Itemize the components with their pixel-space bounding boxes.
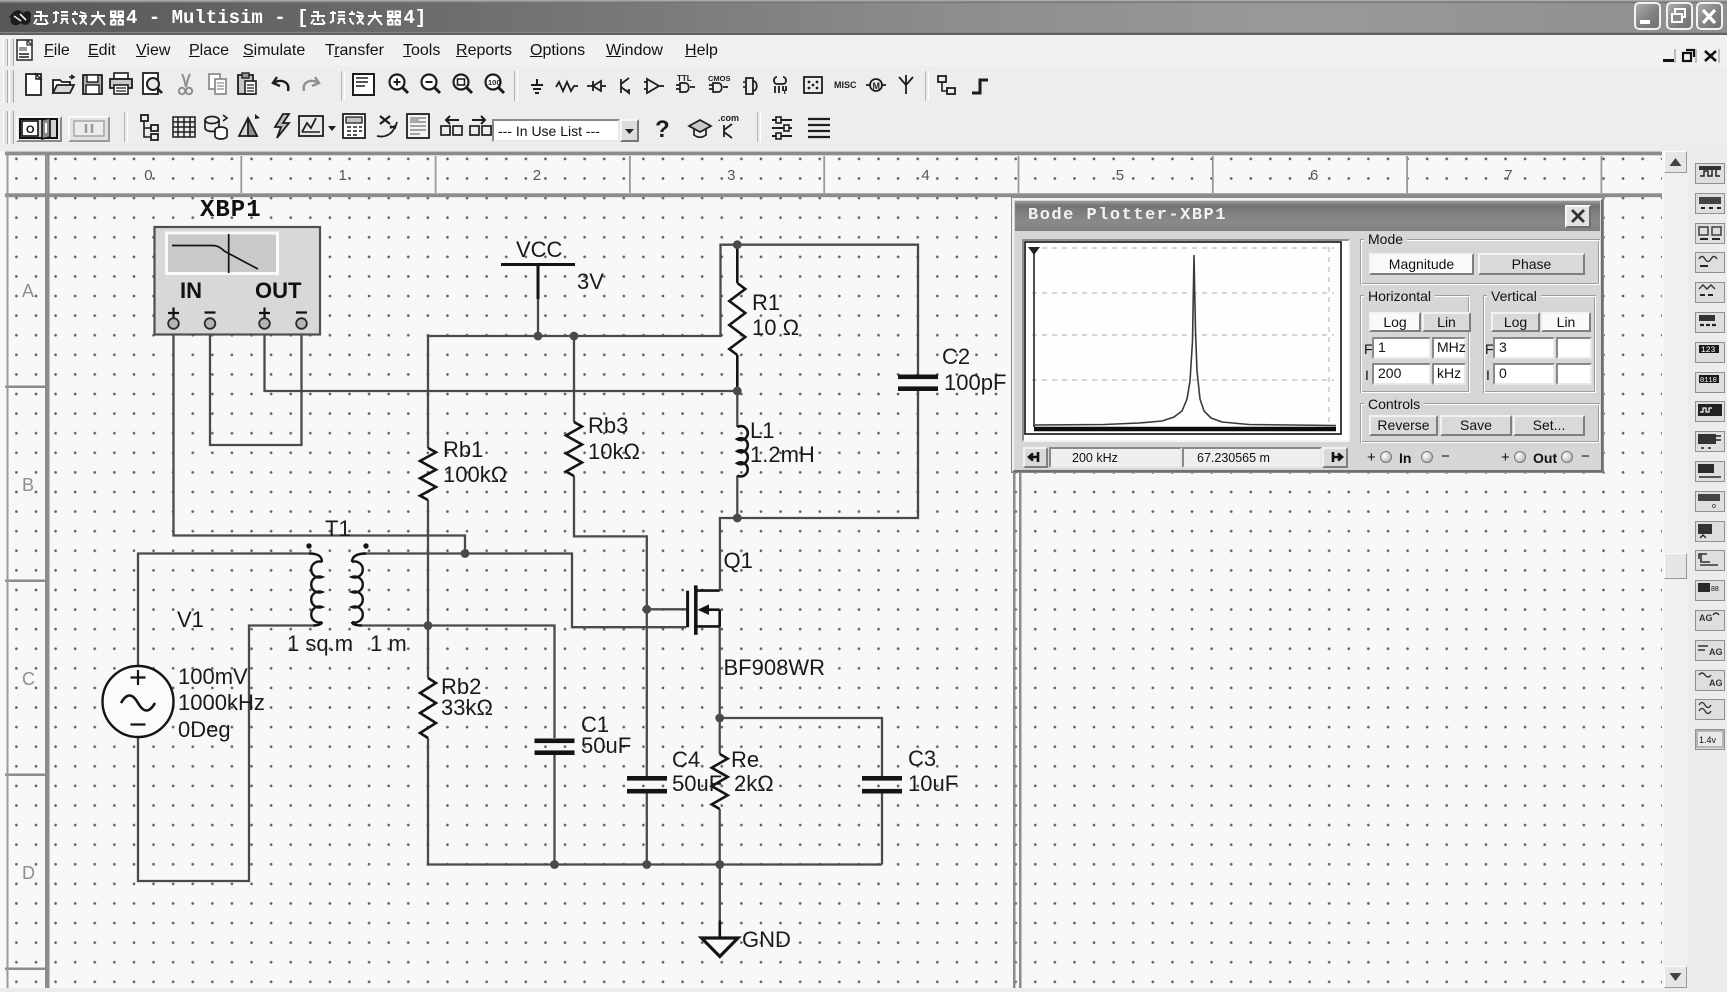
wire IN+ to secondary node bbox=[174, 329, 466, 554]
wire Rb3 bottom to gate G2 node bbox=[574, 476, 647, 609]
svg-text:L1: L1 bbox=[750, 418, 774, 443]
wire IN- to OUT- bbox=[210, 329, 302, 445]
capacitor C1 bbox=[535, 739, 575, 744]
wire C4 bottom to ground rail bbox=[646, 794, 648, 865]
junction node gate G2 bbox=[642, 605, 651, 614]
junction node C1 ground bbox=[550, 860, 559, 869]
svg-text:D: D bbox=[22, 863, 35, 883]
svg-text:2: 2 bbox=[533, 167, 541, 184]
svg-text:10kΩ: 10kΩ bbox=[588, 439, 640, 464]
svg-text:GND: GND bbox=[742, 927, 791, 952]
svg-text:C3: C3 bbox=[908, 746, 936, 771]
instrument XBP1 (bode plotter) bbox=[155, 227, 321, 335]
svg-text:3V: 3V bbox=[577, 269, 604, 294]
inductor L1 bbox=[737, 426, 748, 476]
wire T1 secondary top to gate G1 bbox=[362, 554, 686, 628]
svg-text:1: 1 bbox=[339, 167, 347, 184]
wire C1 bottom to ground rail bbox=[553, 755, 555, 865]
svg-text:OUT: OUT bbox=[255, 278, 302, 303]
junction node C4 ground bbox=[642, 860, 651, 869]
svg-text:AG: AG bbox=[1709, 647, 1723, 657]
svg-text:0: 0 bbox=[144, 167, 152, 184]
svg-text:2kΩ: 2kΩ bbox=[734, 771, 774, 796]
svg-text:Re: Re bbox=[731, 747, 759, 772]
transformer T1 bbox=[306, 543, 368, 625]
wire OUT+ to R1/L1 node bbox=[265, 329, 737, 391]
wire Rb1 top lead bbox=[427, 336, 429, 448]
wire C3 branch bbox=[720, 718, 882, 865]
svg-text:B: B bbox=[22, 475, 34, 495]
junction node drain/tank bbox=[733, 514, 742, 523]
svg-text:1.2mH: 1.2mH bbox=[750, 442, 815, 467]
wire C2 bottom to drain node bbox=[720, 391, 918, 591]
svg-text:3: 3 bbox=[727, 167, 735, 184]
svg-text:AG: AG bbox=[1699, 613, 1713, 623]
svg-text:T1: T1 bbox=[325, 516, 351, 541]
svg-text:0110: 0110 bbox=[1700, 377, 1717, 385]
svg-text:V1: V1 bbox=[177, 607, 204, 632]
svg-text:R1: R1 bbox=[752, 290, 780, 315]
svg-text:1 m: 1 m bbox=[370, 631, 407, 656]
svg-text:0Deg: 0Deg bbox=[178, 717, 231, 742]
svg-text:50uF: 50uF bbox=[581, 733, 631, 758]
svg-text:100pF: 100pF bbox=[944, 370, 1006, 395]
junction node Re/C3 ground bbox=[715, 860, 724, 869]
wire Q1 source to Re and rail to ground bbox=[719, 626, 721, 920]
svg-text:100kΩ: 100kΩ bbox=[443, 462, 507, 487]
svg-text:IN: IN bbox=[180, 278, 202, 303]
wire L1 leads bbox=[736, 391, 738, 518]
ground GND bbox=[702, 921, 739, 957]
svg-text:6: 6 bbox=[1310, 167, 1318, 184]
svg-text:88: 88 bbox=[1711, 586, 1719, 593]
wire Rb1 bottom to Rb2 top bbox=[427, 500, 429, 678]
svg-text:BF908WR: BF908WR bbox=[724, 655, 825, 680]
capacitor C3 bbox=[862, 776, 902, 781]
AC source V1 bbox=[103, 666, 174, 737]
junction node R1/L1/OUT+ bbox=[733, 387, 742, 396]
junction node R1 top bbox=[733, 240, 742, 249]
svg-text:XBP1: XBP1 bbox=[200, 197, 262, 224]
svg-text:10 Ω: 10 Ω bbox=[752, 315, 799, 340]
svg-text:A: A bbox=[22, 281, 34, 301]
svg-text:C2: C2 bbox=[942, 344, 970, 369]
capacitor C4 bbox=[627, 776, 667, 781]
power VCC bbox=[501, 265, 575, 300]
transistor Q1 bbox=[688, 585, 720, 634]
wire Rb3 top lead bbox=[573, 336, 575, 422]
svg-text:1.4v: 1.4v bbox=[1699, 735, 1717, 745]
svg-text:100mV: 100mV bbox=[178, 664, 248, 689]
wire T1 secondary bottom to C1 top bbox=[362, 626, 555, 739]
junction node source/C3 bbox=[715, 714, 724, 723]
junction node VCC rail bbox=[534, 332, 543, 341]
wire V1 plus to T1 primary top bbox=[138, 554, 309, 667]
svg-text:VCC: VCC bbox=[516, 237, 563, 262]
junction node IN+ tap bbox=[461, 549, 470, 558]
svg-text:C: C bbox=[22, 669, 35, 689]
svg-text:AG: AG bbox=[1709, 678, 1723, 688]
wire VCC lead bbox=[537, 299, 539, 336]
junction node Rb1/Rb2 divider bbox=[424, 621, 433, 630]
resistor Rb2 bbox=[420, 678, 436, 738]
svg-text:Rb1: Rb1 bbox=[443, 437, 483, 462]
wire G2 node to gate and down to C4 bbox=[647, 609, 687, 776]
resistor Re bbox=[712, 754, 728, 809]
svg-text:4: 4 bbox=[921, 167, 929, 184]
svg-text:o: o bbox=[1712, 503, 1716, 510]
svg-text:1000kHz: 1000kHz bbox=[178, 690, 265, 715]
resistor Rb1 bbox=[420, 448, 436, 500]
svg-text:5: 5 bbox=[1116, 167, 1124, 184]
svg-text:33kΩ: 33kΩ bbox=[441, 695, 493, 720]
resistor R1 bbox=[736, 245, 739, 283]
wire Rb2 bottom and ground rail bbox=[428, 738, 882, 865]
wire VCC rail to R1 top and C2 top bbox=[428, 245, 918, 375]
svg-text:Rb3: Rb3 bbox=[588, 413, 628, 438]
junction node Rb3 top bbox=[570, 332, 579, 341]
resistor Rb3 bbox=[566, 422, 582, 476]
wire T1 primary bottom to V1 minus bbox=[138, 626, 313, 882]
svg-text:123: 123 bbox=[1701, 346, 1716, 355]
svg-text:50uF: 50uF bbox=[672, 771, 722, 796]
capacitor C2 bbox=[898, 375, 938, 380]
svg-text:1 sq.m: 1 sq.m bbox=[287, 631, 353, 656]
svg-text:7: 7 bbox=[1504, 167, 1512, 184]
svg-text:10uF: 10uF bbox=[908, 771, 958, 796]
svg-text:Q1: Q1 bbox=[724, 548, 753, 573]
svg-text:C4: C4 bbox=[672, 747, 700, 772]
